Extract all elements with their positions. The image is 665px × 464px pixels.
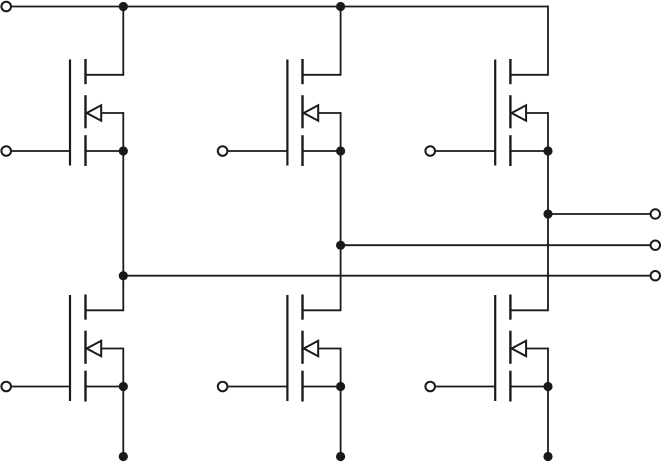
Q3 channel body dash [301,95,303,128]
wire: DC bus down to Q3 drain [340,6,342,76]
Q6 gate line [494,295,496,401]
transistor Q3 (N-channel MOSFET) [287,59,340,166]
gate terminal G6 [425,382,435,392]
node: DC- connection point phase C leg [543,452,552,461]
wire: positive DC bus (top rail) [11,6,548,8]
wire: phase C output line [548,213,651,215]
Q4 body arrow (points into channel) [304,341,319,356]
transistor Q1 (N-channel MOSFET) [70,59,123,166]
node: DC- connection point phase B leg [336,452,345,461]
Q5 channel drain dash [509,59,511,84]
Q2 channel source dash [84,371,86,402]
node: Q3 source junction [336,146,345,155]
node: Q2 source junction [119,382,128,391]
node: phase B output junction [336,241,345,250]
transistor Q2 (N-channel MOSFET) [70,295,123,402]
Q6 body lead wire [526,348,548,350]
wire: Q3 source down to phase B node [340,151,342,245]
transistor Q5 (N-channel MOSFET) [495,59,548,166]
Q1 body lead wire [101,112,123,114]
output terminal phase B [651,241,660,250]
Q2 channel body dash [84,331,86,364]
Q2 source lead wire [86,386,124,388]
wire: Q6 source down to DC- connection [547,387,549,457]
Q3 body arrow (points into channel) [304,105,319,120]
Q6 channel drain dash [509,295,511,320]
node: Q5 source junction [543,146,552,155]
Q1 channel source dash [84,135,86,166]
Q6 body arrow (points into channel) [512,341,526,356]
Q1 channel drain dash [84,59,86,84]
Q3 gate line [286,60,288,166]
node: phase C output junction [543,209,552,218]
node: Q6 source junction [543,382,552,391]
gate terminal G1 [1,146,11,156]
Q4 gate line [286,295,288,401]
Q4 channel source dash [301,371,303,402]
node: Q1 source junction [119,146,128,155]
wire: gate lead to Q3 [228,150,288,152]
Q2 gate line [69,295,71,401]
output terminal phase A [651,271,660,280]
wire: gate lead to Q1 [11,150,70,152]
Q1 body-to-source tie wire [122,112,124,151]
Q4 body-to-source tie wire [340,348,342,387]
Q2 body arrow (points into channel) [87,341,102,356]
Q5 body-to-source tie wire [547,112,549,151]
Q2 body-to-source tie wire [122,348,124,387]
node: DC bus / Q1 drain junction [119,2,128,11]
Q3 source lead wire [303,150,341,152]
Q1 gate line [69,60,71,166]
gate terminal G4 [218,382,228,392]
Q3 channel source dash [301,135,303,166]
wire: phase B node down to Q4 drain [340,245,342,311]
Q2 body lead wire [101,348,123,350]
Q3 channel drain dash [301,59,303,84]
wire: gate lead to Q4 [228,386,288,388]
Q1 channel body dash [84,95,86,128]
wire: phase A node down to Q2 drain [122,276,124,312]
node: phase A output junction [119,271,128,280]
gate terminal G5 [425,146,435,156]
Q2 drain lead wire [86,309,124,311]
Q3 body-to-source tie wire [340,112,342,151]
Q6 drain lead wire [510,309,548,311]
Q4 channel body dash [301,331,303,364]
wire: DC bus down to Q1 drain [122,6,124,76]
Q5 body lead wire [526,112,548,114]
wire: phase C node down to Q6 drain [547,214,549,311]
Q3 drain lead wire [303,74,341,76]
Q2 channel drain dash [84,295,86,320]
node: DC bus / Q3 drain junction [336,2,345,11]
Q1 drain lead wire [86,74,124,76]
Q3 body lead wire [318,112,340,114]
gate terminal G3 [218,146,228,156]
wire: Q5 source down to phase C node [547,151,549,214]
transistor Q6 (N-channel MOSFET) [495,295,548,402]
Q5 source lead wire [510,150,548,152]
Q4 body lead wire [318,348,340,350]
wire: Q1 source down to phase A node [122,151,124,276]
output terminal phase C [651,209,660,218]
wire: Q4 source down to DC- connection [340,387,342,457]
Q5 body arrow (points into channel) [512,105,526,120]
Q1 source lead wire [86,150,124,152]
Q4 drain lead wire [303,309,341,311]
Q4 source lead wire [303,386,341,388]
Q5 gate line [494,60,496,166]
gate terminal G2 [1,382,11,392]
Q6 channel body dash [509,331,511,364]
wire: phase A output line [123,275,650,277]
node: DC- connection point phase A leg [119,452,128,461]
Q4 channel drain dash [301,295,303,320]
node: Q4 source junction [336,382,345,391]
transistor Q4 (N-channel MOSFET) [287,295,340,402]
Q5 drain lead wire [510,74,548,76]
Q6 channel source dash [509,371,511,402]
Q5 channel body dash [509,95,511,128]
Q6 body-to-source tie wire [547,348,549,387]
wire: gate lead to Q5 [435,150,495,152]
wire: phase B output line [341,244,651,246]
DC+ input terminal [1,2,11,12]
wire: Q2 source down to DC- connection [122,387,124,457]
wire: gate lead to Q6 [435,386,495,388]
Q1 body arrow (points into channel) [87,105,102,120]
wire: DC bus down to Q5 drain [547,6,549,76]
wire: gate lead to Q2 [11,386,70,388]
Q5 channel source dash [509,135,511,166]
Q6 source lead wire [510,386,548,388]
